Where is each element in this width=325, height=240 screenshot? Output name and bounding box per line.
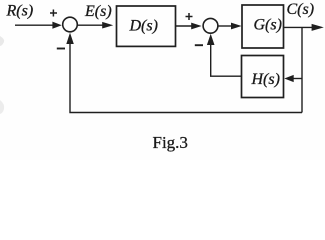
- arrowhead up into junction1: [66, 33, 74, 44]
- block H(s): [242, 56, 284, 98]
- minus sign at junction2: [195, 44, 203, 46]
- svg-text:G(s): G(s): [254, 17, 282, 34]
- svg-text:Fig.3: Fig.3: [153, 133, 188, 152]
- svg-text:E(s): E(s): [84, 3, 112, 20]
- arrowhead up into junction2: [207, 34, 215, 45]
- block D(s): [117, 6, 176, 46]
- wire D(s) to junction2: [176, 25, 193, 27]
- svg-text:H(s): H(s): [251, 71, 280, 88]
- wire output branch drop: [301, 27, 303, 112]
- arrowhead into D(s): [102, 22, 113, 29]
- wire H(s) output to junction2: [211, 45, 242, 77]
- svg-text:C(s): C(s): [287, 1, 315, 18]
- svg-text:D(s): D(s): [129, 17, 158, 34]
- arrowhead into junction1: [52, 22, 61, 29]
- wire G(s) output to C(s): [284, 26, 315, 28]
- wire junction2 to G(s): [219, 25, 233, 27]
- arrowhead into H(s): [284, 75, 293, 82]
- scan smudge left upper: [0, 36, 4, 46]
- wire junction1 to D(s): [78, 24, 103, 26]
- plus sign at junction2: [186, 16, 193, 18]
- summing junction 1: [63, 17, 78, 32]
- arrowhead into junction2: [191, 23, 201, 30]
- plus sign at junction1: [50, 12, 57, 14]
- summing junction 2: [203, 18, 218, 33]
- wire into H(s): [294, 78, 303, 80]
- wire outer feedback bottom: [70, 44, 302, 113]
- minus sign at junction1: [57, 48, 65, 50]
- wire R(s) input: [15, 24, 53, 26]
- scan smudge left lower: [0, 100, 4, 114]
- arrowhead output C(s): [312, 24, 324, 31]
- svg-text:R(s): R(s): [6, 3, 34, 20]
- arrowhead into G(s): [231, 23, 242, 30]
- block G(s): [242, 5, 284, 48]
